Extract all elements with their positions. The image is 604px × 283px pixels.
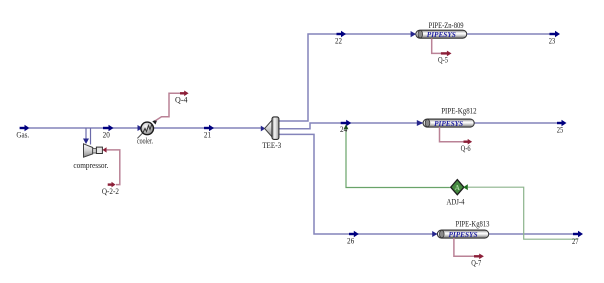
- energy stream Q-7 wire: [454, 238, 474, 256]
- adjust arrowhead into stream 24: [344, 124, 349, 129]
- svg-text:PIPE-Kg812: PIPE-Kg812: [441, 106, 476, 115]
- svg-text:Q-2-2: Q-2-2: [102, 186, 119, 196]
- wire: main feed line Gas to TEE-3: [29, 127, 261, 129]
- energy stream Q-4 terminal arrow: [180, 92, 185, 94]
- svg-text:23: 23: [549, 35, 556, 45]
- stream 24 arrow: [341, 122, 347, 124]
- stream 23 arrow: [550, 33, 556, 35]
- svg-text:26: 26: [347, 236, 354, 246]
- stream 27 arrow: [573, 233, 579, 235]
- energy stream Q-6 wire: [440, 127, 464, 142]
- svg-text:PIPESYS: PIPESYS: [427, 31, 456, 39]
- stream Gas inlet arrow: [20, 127, 25, 129]
- svg-text:A: A: [455, 184, 460, 192]
- svg-text:25: 25: [557, 124, 564, 134]
- stream 22 arrow: [337, 33, 342, 35]
- cooler E-100 icon: [137, 122, 153, 138]
- adjust arrowhead into ADJ-4 right side: [463, 184, 468, 190]
- energy stream Q-2-2 wire: [106, 150, 119, 185]
- svg-text:Gas.: Gas.: [16, 129, 29, 139]
- stream 21 arrow: [204, 127, 210, 129]
- energy stream Q-6 terminal arrow: [464, 140, 469, 142]
- wire: TEE bottom outlet to bottom branch: [279, 134, 573, 234]
- svg-text:27: 27: [572, 236, 579, 246]
- adjust ADJ-4 icon: [451, 180, 464, 195]
- svg-text:24: 24: [340, 124, 348, 134]
- svg-text:Q-4: Q-4: [175, 95, 188, 105]
- svg-text:PIPESYS: PIPESYS: [434, 120, 463, 128]
- TEE-3 inlet arrowhead: [261, 126, 266, 132]
- energy stream Q-7 terminal arrow: [474, 255, 480, 257]
- svg-text:PIPE-Kg813: PIPE-Kg813: [456, 220, 490, 229]
- stream 26 arrow: [349, 233, 354, 235]
- energy stream Q-4 wire: [156, 93, 184, 120]
- energy stream Q-2-2 terminal arrow: [108, 183, 112, 185]
- svg-text:cooler.: cooler.: [137, 137, 153, 146]
- wire: TEE top outlet to top branch: [279, 34, 550, 121]
- pipe PIPE-Zn-809 inlet arrowhead: [411, 31, 416, 37]
- svg-text:Q-5: Q-5: [438, 55, 448, 65]
- svg-text:compressor.: compressor.: [73, 161, 108, 170]
- svg-text:Q-7: Q-7: [471, 257, 481, 267]
- wire: TEE middle outlet to middle branch: [279, 123, 558, 129]
- svg-text:Q-6: Q-6: [461, 143, 471, 153]
- stream 25 arrow: [557, 122, 562, 124]
- adjust wire from ADJ-4 to stream 27: [468, 187, 578, 239]
- energy stream Q-5 wire: [432, 38, 441, 53]
- wire: compressor inlet drop: [85, 128, 87, 139]
- adjust wire from stream 24 to ADJ-4: [346, 126, 450, 188]
- svg-text:21: 21: [204, 129, 211, 139]
- compressor K-100 icon: [84, 144, 103, 157]
- svg-text:PIPESYS: PIPESYS: [449, 231, 478, 239]
- compressor inlet arrowhead: [83, 139, 89, 145]
- pipe PIPE-Kg813 inlet arrowhead: [432, 231, 437, 237]
- energy stream Q-4 attach arrowhead at cooler: [152, 119, 157, 124]
- pipe segment PIPE-Kg813 (PIPESYS) icon: [437, 230, 488, 239]
- energy stream Q-2-2 attach arrowhead at compressor: [102, 147, 106, 152]
- pipe segment PIPE-Kg812 (PIPESYS) icon: [423, 119, 474, 128]
- pipe segment PIPE-Zn-809 (PIPESYS) icon: [416, 30, 467, 39]
- wire: compressor outlet riser: [90, 128, 92, 145]
- svg-text:PIPE-Zn-809: PIPE-Zn-809: [429, 21, 464, 30]
- cooler inlet arrowhead: [138, 125, 143, 131]
- svg-text:22: 22: [335, 36, 342, 46]
- svg-text:ADJ-4: ADJ-4: [447, 196, 466, 206]
- svg-text:20: 20: [103, 129, 110, 139]
- stream 20 arrow: [103, 127, 109, 129]
- svg-text:TEE-3: TEE-3: [262, 140, 281, 150]
- pipe PIPE-Kg812 inlet arrowhead: [417, 120, 423, 126]
- energy stream Q-5 terminal arrow: [441, 52, 447, 54]
- splitter TEE-3 icon: [265, 117, 279, 139]
